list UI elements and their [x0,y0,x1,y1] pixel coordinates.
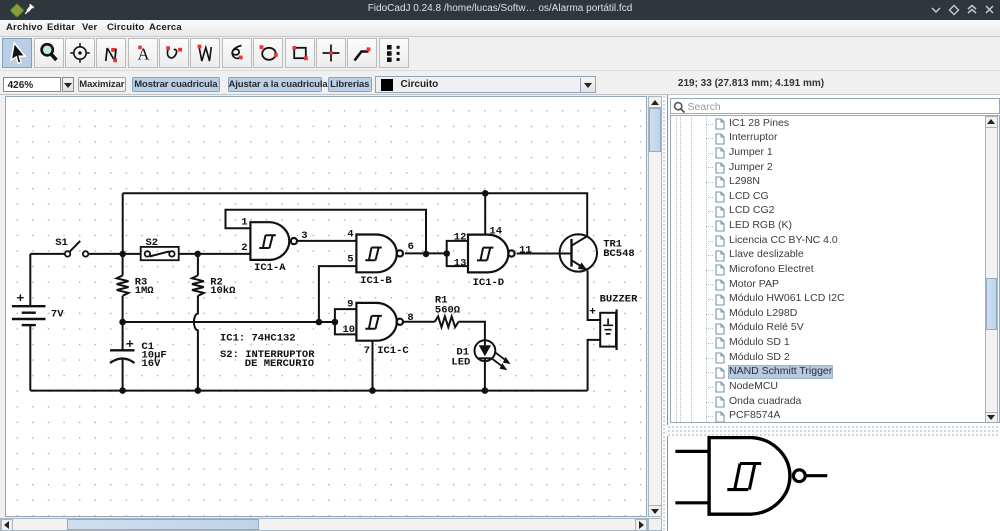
svg-text:10: 10 [343,323,356,335]
svg-text:9: 9 [347,298,353,310]
svg-text:IC1-D: IC1-D [473,277,505,289]
svg-text:DE MERCURIO: DE MERCURIO [245,358,314,370]
svg-text:LED: LED [451,356,470,368]
svg-text:7V: 7V [51,308,64,320]
svg-text:10kΩ: 10kΩ [210,284,236,296]
svg-text:4: 4 [347,228,353,240]
svg-text:BC548: BC548 [603,247,635,259]
svg-text:7: 7 [364,345,370,357]
svg-text:560Ω: 560Ω [435,304,461,316]
svg-text:8: 8 [407,311,413,323]
svg-text:IC1: 74HC132: IC1: 74HC132 [220,332,296,344]
svg-text:16V: 16V [142,358,162,370]
svg-text:3: 3 [301,229,307,241]
svg-text:13: 13 [454,257,467,269]
svg-text:IC1-C: IC1-C [377,345,409,357]
svg-text:+: + [589,306,596,318]
svg-text:1: 1 [241,216,247,228]
svg-text:11: 11 [519,244,532,256]
svg-text:1MΩ: 1MΩ [135,284,155,296]
svg-text:+: + [17,291,25,306]
svg-text:12: 12 [454,231,467,243]
svg-text:BUZZER: BUZZER [600,293,639,305]
svg-text:2: 2 [241,241,247,253]
svg-text:S1: S1 [55,237,68,249]
svg-text:IC1-B: IC1-B [360,275,392,287]
svg-text:S2: S2 [146,237,159,249]
svg-text:+: + [126,337,134,352]
svg-text:5: 5 [347,253,353,265]
svg-text:IC1-A: IC1-A [254,262,286,274]
svg-text:6: 6 [408,241,414,253]
svg-text:14: 14 [489,225,502,237]
